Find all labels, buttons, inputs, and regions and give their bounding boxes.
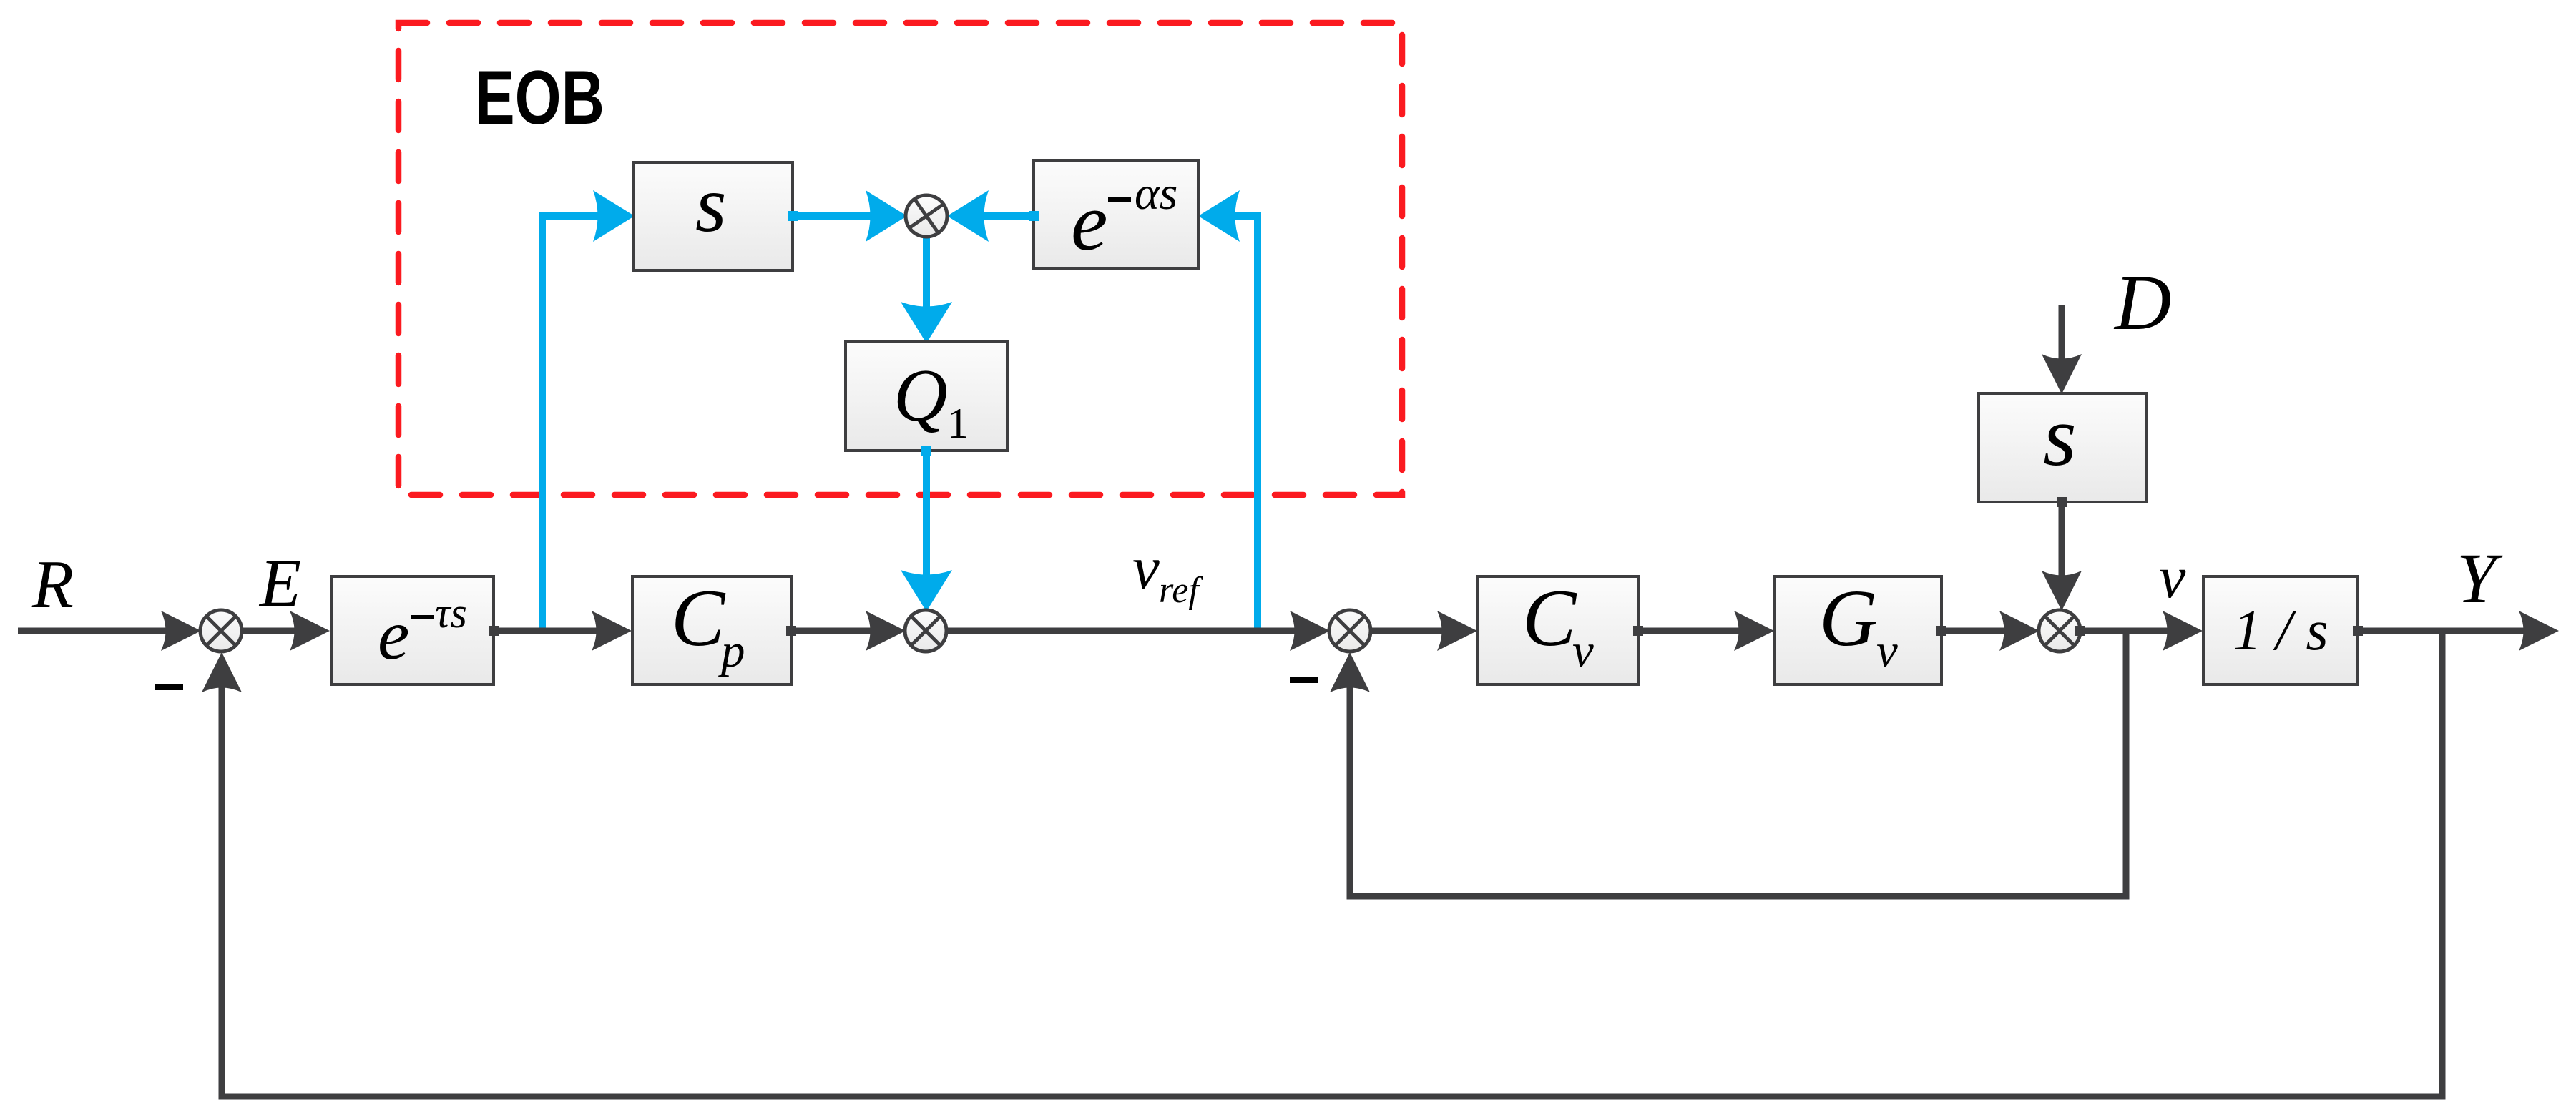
svg-text:e: e: [378, 595, 409, 674]
svg-text:1 / s: 1 / s: [2233, 599, 2328, 662]
svg-text:s: s: [695, 160, 727, 249]
svg-text:C: C: [671, 574, 726, 663]
svg-text:R: R: [31, 546, 74, 622]
svg-text:Q: Q: [893, 353, 948, 437]
svg-text:τs: τs: [435, 589, 467, 637]
svg-text:E: E: [258, 545, 301, 621]
svg-text:1: 1: [947, 400, 969, 447]
svg-text:C: C: [1522, 574, 1577, 663]
svg-text:e: e: [1071, 177, 1108, 268]
svg-text:αs: αs: [1135, 167, 1177, 220]
svg-text:EOB: EOB: [475, 55, 604, 140]
svg-text:D: D: [2113, 259, 2171, 346]
svg-text:Y: Y: [2457, 539, 2503, 618]
svg-text:v: v: [1572, 624, 1594, 677]
svg-text:v: v: [1132, 534, 1160, 601]
svg-text:s: s: [2043, 388, 2077, 483]
svg-text:G: G: [1819, 574, 1878, 663]
svg-text:v: v: [1876, 624, 1898, 677]
svg-text:ref: ref: [1159, 570, 1203, 611]
svg-text:v: v: [2159, 544, 2186, 611]
svg-text:p: p: [718, 624, 745, 677]
